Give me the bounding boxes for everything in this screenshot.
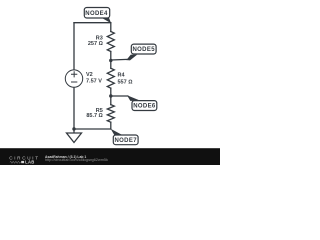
wire R3 to node5 — [110, 52, 112, 61]
label V2 — [86, 72, 102, 84]
label R3 — [88, 36, 103, 47]
V2 plus sign — [71, 71, 77, 82]
svg-text:257 Ω: 257 Ω — [88, 41, 103, 47]
node bottom-left junction dot — [72, 127, 75, 130]
svg-text:NODE7: NODE7 — [114, 138, 137, 144]
svg-text:85.7 Ω: 85.7 Ω — [86, 113, 102, 119]
svg-text:NODE6: NODE6 — [133, 104, 156, 110]
svg-text:http://circuitlab.com/c8kqpwg6: http://circuitlab.com/c8kqpwg62wm5k — [45, 158, 108, 162]
node NODE6 junction dot — [109, 94, 112, 97]
CircuitLab logo — [9, 156, 40, 165]
svg-text:NODE4: NODE4 — [85, 11, 108, 17]
wire R4 to node6 — [110, 88, 112, 96]
svg-text:R4: R4 — [118, 73, 126, 79]
svg-text:557 Ω: 557 Ω — [118, 79, 133, 85]
wire right branch R3 top lead — [110, 23, 112, 32]
node NODE5 junction dot — [109, 59, 112, 62]
label R5 — [86, 108, 102, 119]
wire left vertical upper — [73, 23, 75, 70]
footer bar — [0, 148, 220, 165]
wire R5 bottom lead — [110, 122, 112, 129]
V2 minus sign — [71, 81, 77, 83]
resistor R5 — [107, 105, 114, 123]
wire top horizontal — [74, 22, 111, 24]
resistor R3 — [107, 32, 114, 52]
svg-text:LAB: LAB — [25, 160, 35, 165]
voltage source V2 — [65, 70, 82, 87]
wire bottom horizontal — [74, 128, 111, 130]
resistor R4 — [107, 68, 114, 88]
svg-text:V2: V2 — [86, 72, 93, 78]
label R4 — [118, 73, 133, 86]
node flag NODE5 — [111, 44, 157, 60]
node flag NODE7 — [111, 129, 139, 145]
svg-text:NODE5: NODE5 — [132, 47, 155, 53]
ground — [67, 133, 82, 143]
wire node6 to R5 — [110, 96, 112, 105]
node flag NODE6 — [111, 95, 157, 110]
svg-text:7.57 V: 7.57 V — [86, 79, 102, 85]
wire left vertical lower — [73, 87, 75, 133]
wire node5 to R4 — [110, 61, 112, 69]
node flag NODE4 — [84, 8, 111, 24]
